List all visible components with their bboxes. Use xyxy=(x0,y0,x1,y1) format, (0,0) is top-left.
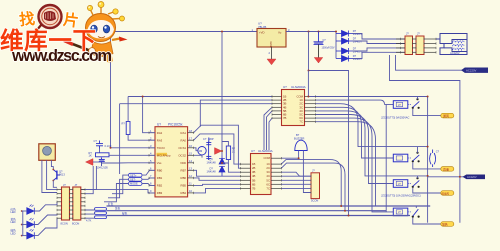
power arrow left xyxy=(86,159,94,166)
transformer T1 xyxy=(436,34,467,55)
wire cluster drops to connector2 xyxy=(85,166,96,194)
LED LED3 xyxy=(27,229,35,239)
svg-text:AC220V: AC220V xyxy=(450,51,460,55)
node junction on top rail xyxy=(221,31,223,33)
connector J4 8CON xyxy=(62,187,70,220)
wire regulator gnd stem xyxy=(271,47,273,59)
svg-text:7C: 7C xyxy=(299,120,303,124)
svg-text:1000uF/25V: 1000uF/25V xyxy=(322,47,335,50)
wire key1 to RB0 xyxy=(142,170,155,175)
svg-text:低速风: 低速风 xyxy=(442,191,450,195)
wire mid link xyxy=(428,176,464,178)
wire key2 to RB1 xyxy=(142,178,155,179)
ULN2003A U4 body xyxy=(251,154,272,195)
wire R2 bottom to pin2 xyxy=(128,135,155,141)
diode D4 1N4007 xyxy=(336,56,353,62)
mascot eyes xyxy=(91,25,98,33)
node dots on rails xyxy=(427,96,429,98)
svg-text:RA3: RA3 xyxy=(157,138,163,142)
MCU U2 PIC16C5x body xyxy=(155,127,188,197)
svg-text:1N4007: 1N4007 xyxy=(353,40,363,44)
svg-text:RB4: RB4 xyxy=(181,191,187,195)
wire ULN2 input rows from left xyxy=(194,125,241,193)
wire relay1 coil feed xyxy=(385,104,394,106)
regulator U1 78L05 xyxy=(252,22,291,55)
node xyxy=(308,31,310,33)
svg-text:LED: LED xyxy=(11,210,16,214)
svg-text:RB6: RB6 xyxy=(181,176,187,180)
wire bridge to connector pins xyxy=(353,34,406,59)
svg-text:104C/105: 104C/105 xyxy=(97,165,109,169)
wire OSC2 row xyxy=(194,155,202,157)
connector J3 xyxy=(311,173,320,199)
svg-text:U?: U? xyxy=(157,122,161,126)
svg-text:1N4148: 1N4148 xyxy=(207,169,217,173)
varistor across K2 contact xyxy=(430,150,436,168)
ULN2 pin names xyxy=(252,162,256,190)
svg-text:8CON: 8CON xyxy=(72,222,79,226)
svg-text:Vss: Vss xyxy=(157,161,162,165)
svg-text:1N4007: 1N4007 xyxy=(353,57,363,61)
wire left vertical from top rail xyxy=(110,32,112,148)
relay K4 xyxy=(393,206,441,224)
ULN1 right pins xyxy=(305,97,316,122)
svg-text:1K: 1K xyxy=(89,154,92,158)
wire R4 top xyxy=(222,142,228,147)
svg-text:7C: 7C xyxy=(266,186,270,190)
LED labels xyxy=(11,207,17,235)
ULN2 left pins xyxy=(240,164,250,188)
net pill key1 xyxy=(129,173,143,177)
ULN2 right pins xyxy=(271,158,281,188)
wire key pills left drops xyxy=(104,175,129,202)
bus line 2 xyxy=(107,210,387,212)
wire RA3 rail to x=232.8 drop xyxy=(120,103,272,105)
net label AC220V input xyxy=(462,68,488,73)
diode D1 1N4007 xyxy=(336,31,353,37)
node xyxy=(308,70,310,72)
relay K3 xyxy=(381,176,441,198)
svg-text:OCS1: OCS1 xyxy=(178,146,186,150)
svg-text:GND: GND xyxy=(269,42,273,48)
svg-text:U?: U? xyxy=(283,85,287,89)
svg-text:1N4007: 1N4007 xyxy=(353,50,363,54)
mascot mouth xyxy=(98,37,105,38)
wire connector link pins xyxy=(396,39,436,52)
wire R2 top rail xyxy=(127,97,129,122)
wire OSC1 to crystal xyxy=(194,148,198,151)
bus line 3 xyxy=(107,215,411,217)
svg-text:高速: 高速 xyxy=(443,166,449,171)
svg-text:MCLR/Vpp: MCLR/Vpp xyxy=(157,153,171,157)
svg-text:VDD: VDD xyxy=(180,161,186,165)
wire diode anode rail xyxy=(335,32,337,59)
capacitor C5 30P xyxy=(206,156,211,158)
svg-text:RA0: RA0 xyxy=(181,138,187,142)
wire T0CKI row xyxy=(111,147,156,149)
connector pin stubs xyxy=(57,190,85,219)
node xyxy=(318,31,320,33)
ULN2003A U3 body xyxy=(282,90,305,126)
mascot right arm dart xyxy=(112,39,120,41)
MCU left pins xyxy=(149,133,155,193)
wire LED common and rows xyxy=(22,202,57,236)
mascot face xyxy=(88,20,115,39)
net label pill4 xyxy=(441,222,454,227)
svg-text:C?: C? xyxy=(203,137,207,141)
wire osc drop xyxy=(200,100,272,127)
svg-text:4M: 4M xyxy=(199,149,203,153)
svg-text:SET+: SET+ xyxy=(130,173,137,177)
svg-text:ULN2003A: ULN2003A xyxy=(258,149,273,153)
LED LED1 xyxy=(27,205,35,215)
net pill key3 xyxy=(129,182,143,186)
svg-text:SET-: SET- xyxy=(130,178,136,182)
svg-text:www.dzsc.com: www.dzsc.com xyxy=(11,47,112,65)
connector J1 xyxy=(405,36,413,55)
svg-text:PIC16C5x: PIC16C5x xyxy=(168,122,183,126)
svg-text:RB1: RB1 xyxy=(157,176,163,180)
svg-text:黄色: 黄色 xyxy=(115,207,121,211)
wire COM rail to relay rail xyxy=(308,71,427,97)
capacitor C3 small xyxy=(99,158,105,167)
svg-text:Vo: Vo xyxy=(278,31,282,35)
wire Vss row xyxy=(102,163,156,166)
svg-text:4.7K: 4.7K xyxy=(86,219,92,223)
wire Q1 emitter down xyxy=(53,181,57,188)
capacitor C2 0.1uF xyxy=(96,141,103,149)
svg-text:8CON: 8CON xyxy=(61,222,68,226)
diode D3 1N4007 xyxy=(336,48,353,54)
svg-text:LED: LED xyxy=(11,220,16,224)
svg-text:U?: U? xyxy=(251,149,255,153)
wire ULN1 out bundle to relays xyxy=(315,100,427,212)
connector J2 xyxy=(416,36,424,55)
net pill key2 xyxy=(129,178,143,182)
MCU right pins xyxy=(188,133,194,193)
svg-text:RB2: RB2 xyxy=(157,184,163,188)
wire buzzer legs xyxy=(281,151,298,159)
svg-text:1N4007: 1N4007 xyxy=(353,32,363,36)
ground symbol below regulator xyxy=(267,59,276,65)
wire right rail x=427.6 xyxy=(427,97,429,223)
net label pill3 xyxy=(441,191,454,196)
svg-text:OCS2: OCS2 xyxy=(178,153,186,157)
svg-text:RB5: RB5 xyxy=(181,184,187,188)
wire relay left rail xyxy=(385,105,387,212)
buzzer B1 xyxy=(295,140,307,150)
power arrow right crystal xyxy=(215,148,222,155)
connector J5 8CON xyxy=(73,187,81,220)
net label pill2 xyxy=(441,167,454,172)
wire ULN2 outputs to buses xyxy=(281,160,345,211)
capacitor C4 30P xyxy=(206,138,211,145)
MCU pin names xyxy=(157,153,168,156)
svg-text:RB0: RB0 xyxy=(157,168,163,172)
mascot antennae xyxy=(90,6,120,20)
logo magnifier circle xyxy=(39,5,62,28)
transformer coils xyxy=(453,41,465,50)
transistor Q1 9013 xyxy=(53,170,60,181)
LED LED2 xyxy=(27,218,35,228)
wire ULN2 outputs to connector J3 xyxy=(281,172,311,188)
svg-text:ULN2003A: ULN2003A xyxy=(291,85,306,89)
ULN1 pin names xyxy=(283,95,287,121)
wire regulator output rail xyxy=(286,31,336,33)
wire RA2 loop to ULN1 input 1 xyxy=(128,96,272,98)
mascot arm with stick xyxy=(70,43,96,53)
mascot body xyxy=(91,42,113,57)
bus nodes xyxy=(340,205,342,207)
bus line 1 xyxy=(107,205,431,207)
svg-text:9013: 9013 xyxy=(59,172,65,176)
relay K1 xyxy=(381,97,441,120)
wire RB3 long row xyxy=(81,190,155,193)
wire sensor legs xyxy=(42,160,57,192)
svg-text:C?: C? xyxy=(94,139,98,143)
svg-text:COM: COM xyxy=(263,156,270,160)
diode D2 1N4007 xyxy=(336,38,353,44)
svg-text:AC220V: AC220V xyxy=(467,175,477,179)
ground below C1 xyxy=(314,58,323,64)
wire AC return nested xyxy=(396,55,463,70)
resistor R4 vertical xyxy=(226,146,230,160)
MCU pin numbers xyxy=(150,129,192,193)
svg-text:T0CKI: T0CKI xyxy=(157,146,165,150)
mascot head xyxy=(86,14,116,42)
svg-text:5CON: 5CON xyxy=(311,199,318,203)
wire mid vertical x=222 xyxy=(221,32,223,156)
logo fist inside magnifier xyxy=(44,11,56,21)
net label pill1 xyxy=(441,113,454,118)
wire down from output rail to lower rail xyxy=(309,32,349,216)
svg-text:BUZZER: BUZZER xyxy=(294,136,305,140)
wire top rail xyxy=(111,31,258,33)
wire key drop left xyxy=(119,104,121,174)
svg-text:7B: 7B xyxy=(283,116,287,120)
svg-text:C?: C? xyxy=(436,150,440,154)
svg-text:78L05: 78L05 xyxy=(258,25,267,29)
svg-text:RB7: RB7 xyxy=(181,168,187,172)
svg-text:30P: 30P xyxy=(209,137,214,141)
svg-text:7B: 7B xyxy=(252,186,256,190)
resistor pills R5 R6 R7 xyxy=(95,208,107,219)
crystal Y1 xyxy=(198,142,209,161)
wire ULN1 inputs diagonals xyxy=(264,107,272,150)
svg-text:JZC6D(T73) 5A/250VAC: JZC6D(T73) 5A/250VAC xyxy=(381,115,409,119)
svg-text:绿色: 绿色 xyxy=(122,212,128,216)
wire pills to connector xyxy=(85,209,95,218)
resistor R3 horizontal 1K xyxy=(96,153,110,157)
resistor R2 vertical pullup xyxy=(126,122,130,135)
svg-text:通风: 通风 xyxy=(443,113,449,118)
capacitor C1 electrolytic xyxy=(314,32,324,58)
svg-text:加热: 加热 xyxy=(442,222,448,226)
svg-text:RA2: RA2 xyxy=(157,131,163,135)
wire R4 bottom to diode xyxy=(222,160,228,164)
wire MCLR row xyxy=(109,154,155,156)
svg-text:RA1: RA1 xyxy=(181,131,187,135)
svg-text:AC220V: AC220V xyxy=(466,69,477,73)
svg-text:RB3: RB3 xyxy=(157,191,163,195)
svg-text:找: 找 xyxy=(18,9,36,30)
diode D5 1N4148 xyxy=(219,156,225,165)
svg-text:JZC6D(T73) 10A 250VAC(28VDC): JZC6D(T73) 10A 250VAC(28VDC) xyxy=(381,194,421,198)
svg-text:R?: R? xyxy=(122,122,126,126)
diode D6 1N4148 xyxy=(219,167,225,177)
svg-text:1N4148: 1N4148 xyxy=(207,161,217,165)
pin end ticks xyxy=(57,38,436,220)
relay K2 xyxy=(393,147,441,169)
svg-text:LED: LED xyxy=(11,231,16,235)
wire key3 to RB2 xyxy=(142,184,155,186)
ULN1 left pins xyxy=(272,97,282,119)
svg-text:红色: 红色 xyxy=(108,202,114,206)
svg-text:+VD: +VD xyxy=(259,31,265,35)
sensor U5 xyxy=(39,144,56,161)
svg-text:MODE: MODE xyxy=(130,182,138,186)
